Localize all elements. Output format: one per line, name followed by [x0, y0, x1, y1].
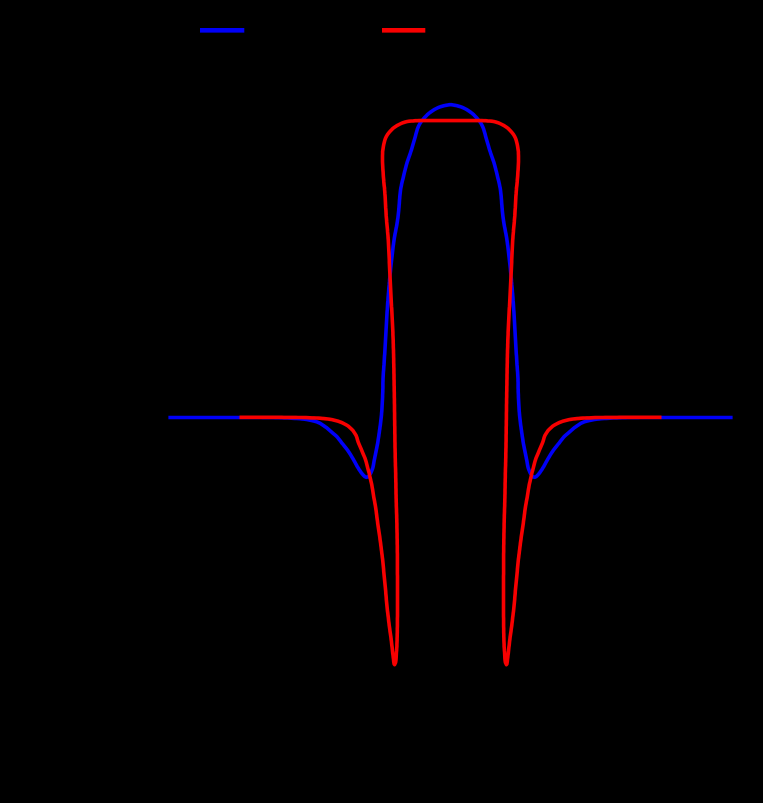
- blue curve: [168, 105, 732, 478]
- red curve: [240, 121, 662, 665]
- legend blue sample line: [200, 28, 244, 33]
- legend red sample line: [382, 28, 425, 33]
